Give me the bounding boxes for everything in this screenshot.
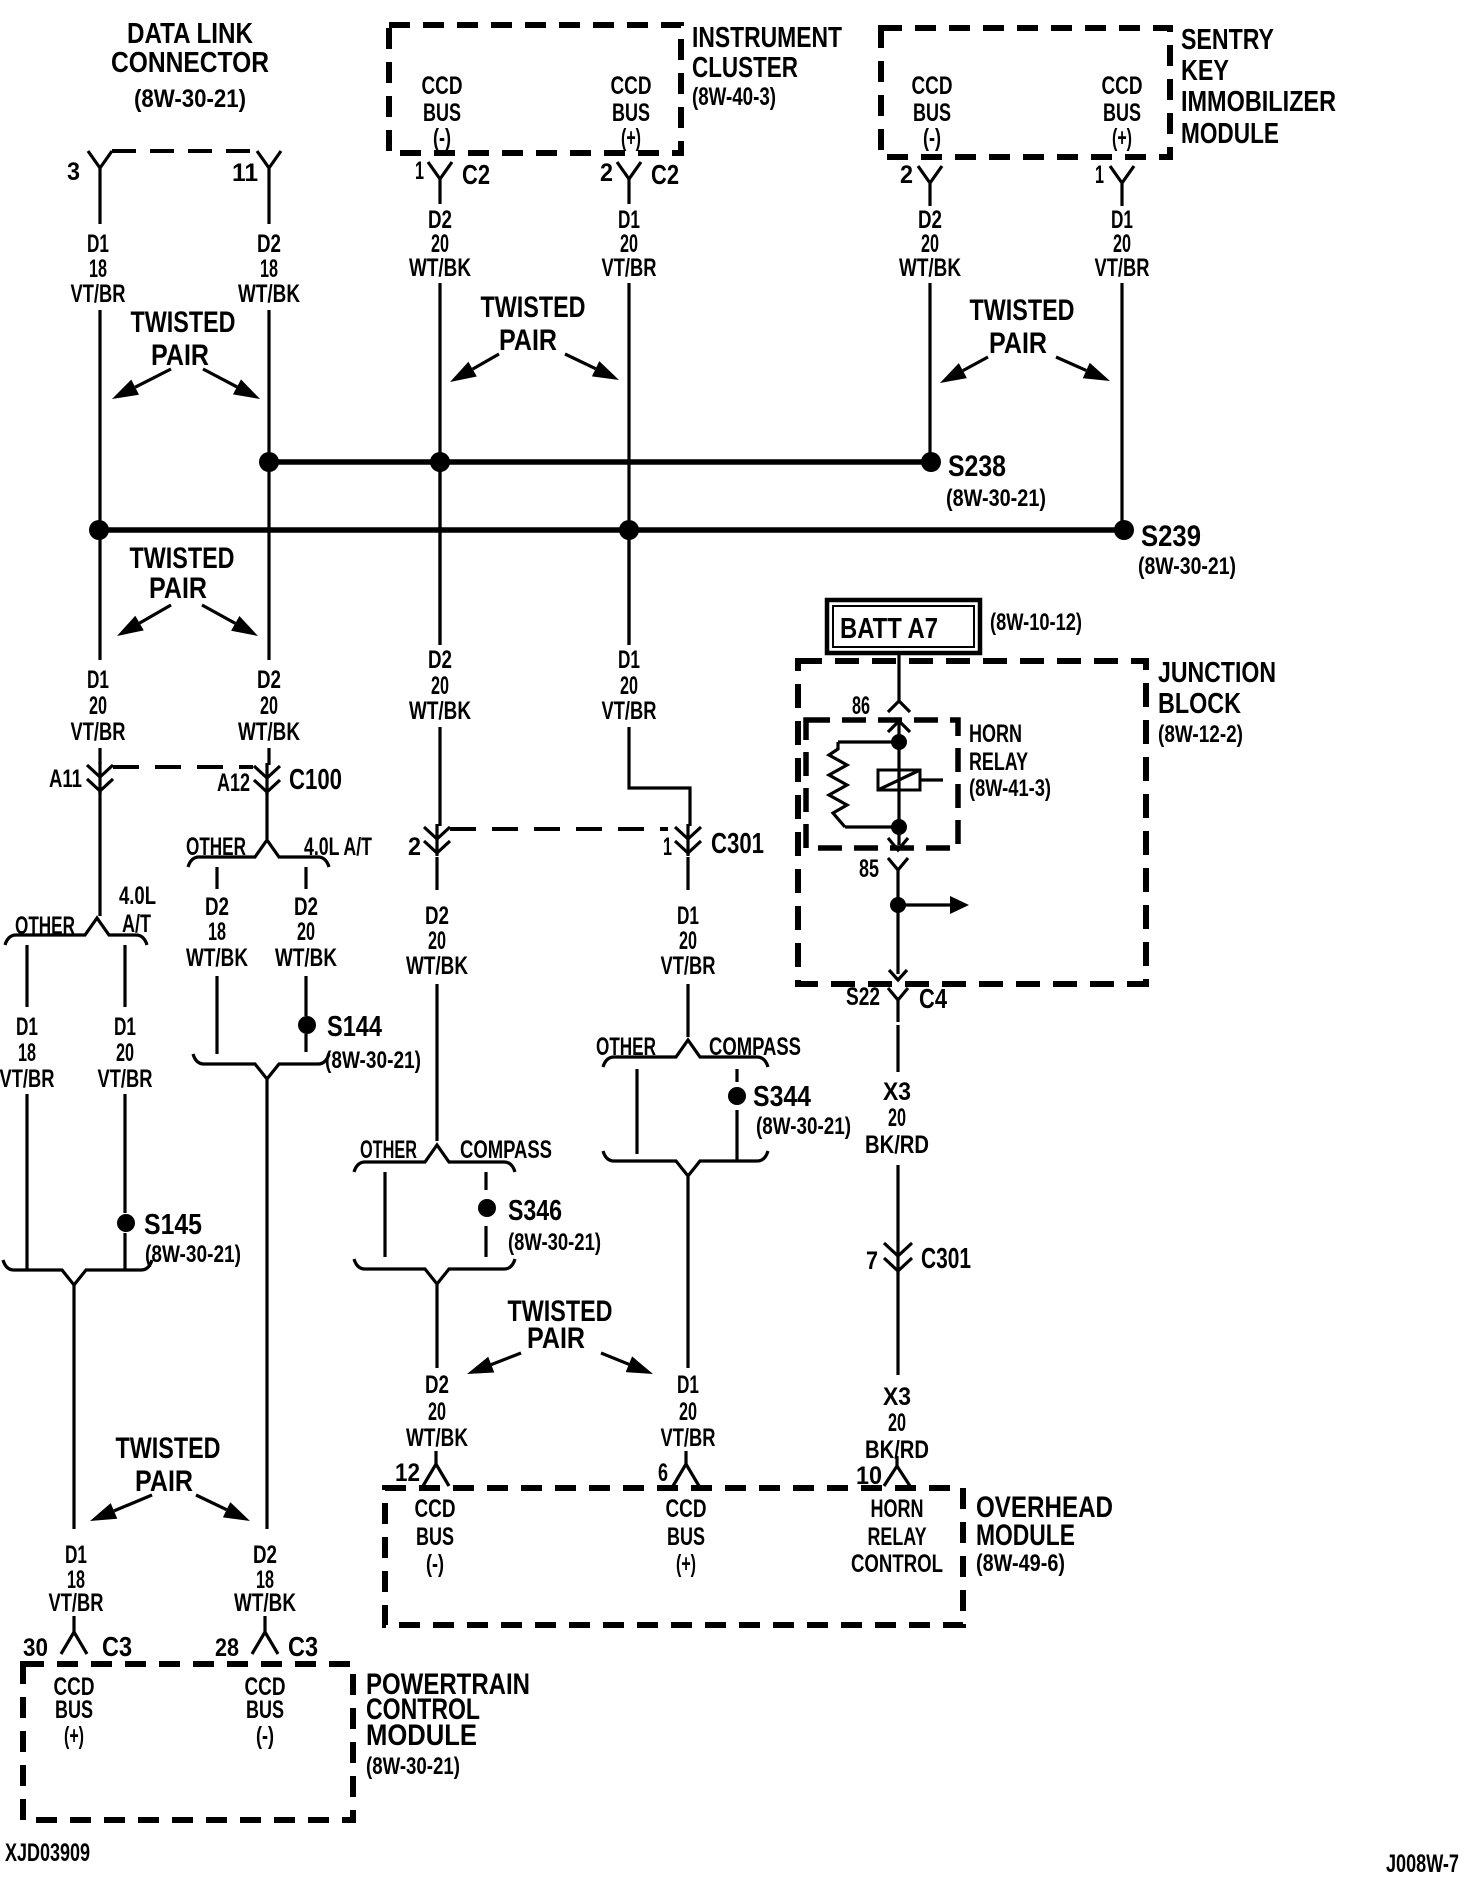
svg-text:D2: D2 — [428, 646, 452, 674]
svg-text:BUS: BUS — [612, 99, 650, 127]
svg-text:20: 20 — [428, 1398, 446, 1426]
svg-text:RELAY: RELAY — [969, 748, 1028, 776]
svg-text:WT/BK: WT/BK — [409, 254, 471, 282]
svg-text:S145: S145 — [144, 1209, 202, 1241]
svg-text:VT/BR: VT/BR — [98, 1065, 153, 1093]
svg-text:PAIR: PAIR — [527, 1322, 585, 1355]
svg-text:CONTROL: CONTROL — [851, 1550, 943, 1578]
svg-text:7: 7 — [866, 1247, 878, 1275]
svg-text:DATA LINK: DATA LINK — [127, 18, 253, 50]
svg-text:CCD: CCD — [415, 1495, 456, 1523]
svg-text:(+): (+) — [64, 1722, 84, 1750]
svg-text:1: 1 — [663, 833, 672, 861]
svg-text:C3: C3 — [102, 1631, 132, 1662]
svg-text:11: 11 — [232, 159, 258, 187]
svg-text:OTHER: OTHER — [186, 833, 246, 861]
svg-text:S344: S344 — [753, 1081, 811, 1113]
svg-text:D1: D1 — [677, 902, 699, 930]
svg-text:D2: D2 — [257, 230, 281, 258]
svg-text:TWISTED: TWISTED — [116, 1432, 221, 1465]
svg-text:OTHER: OTHER — [596, 1033, 656, 1061]
svg-text:PAIR: PAIR — [989, 327, 1047, 360]
svg-text:18: 18 — [260, 255, 278, 283]
svg-text:18: 18 — [18, 1039, 36, 1067]
svg-text:20: 20 — [620, 672, 638, 700]
svg-text:D2: D2 — [257, 666, 281, 694]
svg-text:(+): (+) — [676, 1550, 696, 1578]
svg-text:WT/BK: WT/BK — [899, 254, 961, 282]
svg-text:WT/BK: WT/BK — [406, 952, 468, 980]
svg-text:20: 20 — [89, 692, 107, 720]
svg-text:D1: D1 — [16, 1013, 38, 1041]
svg-text:4.0L: 4.0L — [119, 882, 156, 910]
svg-text:(8W-30-21): (8W-30-21) — [325, 1047, 421, 1074]
svg-text:VT/BR: VT/BR — [661, 952, 716, 980]
svg-text:VT/BR: VT/BR — [49, 1589, 104, 1617]
svg-text:VT/BR: VT/BR — [602, 254, 657, 282]
svg-text:(-): (-) — [433, 124, 451, 152]
svg-text:TWISTED: TWISTED — [131, 306, 236, 339]
svg-text:VT/BR: VT/BR — [71, 718, 126, 746]
svg-text:PAIR: PAIR — [135, 1465, 193, 1498]
svg-text:(8W-30-21): (8W-30-21) — [366, 1753, 460, 1780]
svg-text:10: 10 — [856, 1462, 882, 1490]
svg-text:(8W-40-3): (8W-40-3) — [692, 83, 776, 111]
svg-text:85: 85 — [859, 855, 879, 883]
svg-text:WT/BK: WT/BK — [238, 718, 300, 746]
svg-text:S239: S239 — [1141, 520, 1201, 553]
svg-text:(8W-12-2): (8W-12-2) — [1158, 721, 1243, 748]
svg-text:CCD: CCD — [1102, 72, 1143, 100]
svg-text:PAIR: PAIR — [151, 339, 209, 372]
svg-text:BUS: BUS — [667, 1523, 705, 1551]
svg-text:D1: D1 — [65, 1541, 87, 1569]
svg-text:(+): (+) — [621, 124, 641, 152]
svg-text:(8W-30-21): (8W-30-21) — [1138, 553, 1236, 580]
svg-text:PAIR: PAIR — [149, 572, 207, 605]
svg-text:20: 20 — [428, 927, 446, 955]
svg-text:CCD: CCD — [422, 72, 463, 100]
svg-text:BK/RD: BK/RD — [865, 1131, 929, 1159]
svg-text:C2: C2 — [651, 159, 679, 190]
svg-text:CLUSTER: CLUSTER — [692, 52, 798, 84]
svg-text:D2: D2 — [253, 1541, 277, 1569]
svg-text:J008W-7: J008W-7 — [1386, 1850, 1459, 1878]
svg-text:C4: C4 — [919, 983, 947, 1014]
svg-text:2: 2 — [600, 159, 613, 187]
svg-text:JUNCTION: JUNCTION — [1158, 657, 1276, 689]
svg-text:20: 20 — [888, 1409, 906, 1437]
svg-text:WT/BK: WT/BK — [409, 697, 471, 725]
svg-text:VT/BR: VT/BR — [661, 1424, 716, 1452]
svg-text:20: 20 — [297, 918, 315, 946]
svg-text:C301: C301 — [711, 828, 764, 860]
svg-text:WT/BK: WT/BK — [234, 1589, 296, 1617]
svg-text:A/T: A/T — [122, 910, 151, 938]
svg-text:12: 12 — [395, 1459, 420, 1487]
svg-text:BUS: BUS — [1103, 99, 1141, 127]
svg-text:30: 30 — [23, 1634, 48, 1662]
svg-text:BATT A7: BATT A7 — [840, 613, 938, 645]
svg-text:TWISTED: TWISTED — [130, 542, 235, 575]
svg-text:RELAY: RELAY — [868, 1523, 927, 1551]
svg-text:3: 3 — [67, 158, 80, 186]
svg-text:TWISTED: TWISTED — [970, 294, 1075, 327]
svg-text:CCD: CCD — [611, 72, 652, 100]
svg-text:D1: D1 — [87, 666, 109, 694]
svg-text:D1: D1 — [114, 1013, 136, 1041]
svg-text:20: 20 — [260, 692, 278, 720]
svg-text:BUS: BUS — [416, 1523, 454, 1551]
svg-text:VT/BR: VT/BR — [71, 280, 126, 308]
svg-text:20: 20 — [679, 927, 697, 955]
svg-text:18: 18 — [208, 918, 226, 946]
svg-text:XJD03909: XJD03909 — [5, 1839, 90, 1867]
svg-text:VT/BR: VT/BR — [1095, 254, 1150, 282]
svg-text:20: 20 — [679, 1398, 697, 1426]
svg-text:A11: A11 — [49, 765, 82, 793]
svg-text:(8W-30-21): (8W-30-21) — [946, 485, 1046, 512]
svg-text:S238: S238 — [948, 450, 1006, 483]
svg-text:C100: C100 — [289, 764, 342, 796]
svg-text:2: 2 — [900, 161, 913, 189]
svg-text:(8W-10-12): (8W-10-12) — [990, 609, 1082, 636]
svg-text:OTHER: OTHER — [15, 912, 75, 940]
svg-text:C301: C301 — [921, 1243, 971, 1275]
svg-text:S22: S22 — [846, 983, 880, 1011]
svg-text:BUS: BUS — [55, 1696, 93, 1724]
svg-text:TWISTED: TWISTED — [481, 291, 586, 324]
svg-text:BUS: BUS — [423, 99, 461, 127]
svg-text:D1: D1 — [618, 646, 640, 674]
svg-text:(8W-49-6): (8W-49-6) — [976, 1550, 1065, 1577]
svg-text:C2: C2 — [462, 159, 490, 190]
svg-text:(+): (+) — [1112, 124, 1132, 152]
svg-text:4.0L A/T: 4.0L A/T — [304, 833, 372, 861]
svg-text:BUS: BUS — [246, 1696, 284, 1724]
svg-text:WT/BK: WT/BK — [406, 1424, 468, 1452]
svg-text:20: 20 — [888, 1104, 906, 1132]
svg-text:1: 1 — [415, 157, 424, 185]
svg-text:A12: A12 — [217, 769, 250, 797]
svg-text:2: 2 — [408, 833, 421, 861]
svg-text:X3: X3 — [883, 1383, 911, 1411]
svg-text:WT/BK: WT/BK — [186, 944, 248, 972]
svg-text:VT/BR: VT/BR — [0, 1065, 55, 1093]
svg-text:MODULE: MODULE — [366, 1719, 477, 1752]
svg-text:CCD: CCD — [666, 1495, 707, 1523]
svg-text:(8W-30-21): (8W-30-21) — [508, 1229, 601, 1256]
svg-text:HORN: HORN — [969, 720, 1022, 748]
svg-text:IMMOBILIZER: IMMOBILIZER — [1181, 86, 1336, 118]
svg-text:CONNECTOR: CONNECTOR — [111, 47, 269, 79]
svg-text:28: 28 — [215, 1634, 239, 1662]
svg-text:COMPASS: COMPASS — [460, 1136, 552, 1164]
svg-text:D1: D1 — [677, 1371, 699, 1399]
svg-text:(8W-41-3): (8W-41-3) — [969, 775, 1051, 802]
svg-text:BK/RD: BK/RD — [865, 1436, 929, 1464]
svg-text:(-): (-) — [426, 1550, 444, 1578]
svg-text:HORN: HORN — [871, 1495, 924, 1523]
svg-text:86: 86 — [852, 692, 870, 720]
svg-text:(8W-30-21): (8W-30-21) — [145, 1241, 241, 1268]
svg-text:(8W-30-21): (8W-30-21) — [756, 1113, 851, 1140]
svg-text:(8W-30-21): (8W-30-21) — [134, 85, 246, 113]
svg-text:6: 6 — [658, 1459, 668, 1487]
svg-text:20: 20 — [116, 1039, 134, 1067]
svg-text:BUS: BUS — [913, 99, 951, 127]
svg-text:18: 18 — [89, 255, 107, 283]
svg-text:D2: D2 — [425, 902, 449, 930]
svg-text:20: 20 — [431, 672, 449, 700]
svg-text:VT/BR: VT/BR — [602, 697, 657, 725]
svg-text:(-): (-) — [256, 1722, 274, 1750]
svg-text:BLOCK: BLOCK — [1158, 688, 1241, 720]
svg-text:D2: D2 — [294, 893, 318, 921]
svg-text:WT/BK: WT/BK — [238, 280, 300, 308]
svg-text:S346: S346 — [508, 1195, 562, 1227]
svg-text:(-): (-) — [923, 124, 941, 152]
svg-text:S144: S144 — [327, 1011, 382, 1043]
svg-text:COMPASS: COMPASS — [709, 1033, 801, 1061]
svg-text:C3: C3 — [288, 1631, 318, 1662]
svg-text:CCD: CCD — [912, 72, 953, 100]
svg-text:D2: D2 — [205, 893, 229, 921]
svg-text:PAIR: PAIR — [499, 324, 557, 357]
svg-text:D1: D1 — [87, 230, 109, 258]
svg-text:MODULE: MODULE — [976, 1519, 1075, 1552]
svg-text:X3: X3 — [883, 1078, 911, 1106]
svg-text:SENTRY: SENTRY — [1181, 24, 1274, 56]
svg-text:WT/BK: WT/BK — [275, 944, 337, 972]
svg-text:OTHER: OTHER — [360, 1136, 417, 1164]
svg-text:INSTRUMENT: INSTRUMENT — [692, 22, 842, 54]
svg-text:D2: D2 — [425, 1371, 449, 1399]
svg-text:KEY: KEY — [1181, 55, 1229, 87]
svg-text:MODULE: MODULE — [1181, 118, 1279, 150]
svg-text:1: 1 — [1095, 161, 1104, 189]
